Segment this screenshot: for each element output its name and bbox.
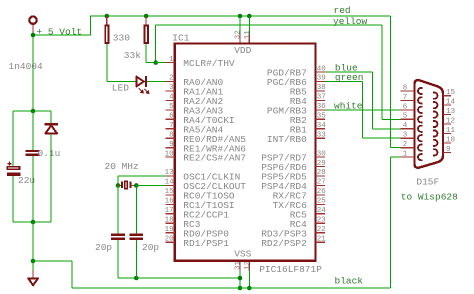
svg-text:28: 28	[317, 169, 326, 177]
connector pin 1	[400, 156, 414, 158]
svg-text:8: 8	[403, 84, 408, 92]
ground symbol	[28, 278, 38, 285]
wire pin12 VSS	[248, 261, 250, 271]
svg-text:29: 29	[317, 160, 326, 168]
wire left cap to vss rail	[117, 240, 119, 278]
svg-text:10: 10	[446, 136, 456, 144]
svg-text:yellow: yellow	[333, 16, 368, 27]
pin 3 RA1/AN1	[165, 90, 175, 92]
svg-text:PIC16LF871P: PIC16LF871P	[259, 264, 322, 275]
junction pin31 cap rail	[238, 276, 243, 281]
wire LED to pin2	[147, 81, 166, 83]
wire 330 to LED	[106, 44, 108, 82]
svg-text:15: 15	[446, 89, 456, 97]
svg-text:26: 26	[317, 188, 327, 196]
svg-text:+ 5 Volt: + 5 Volt	[37, 26, 83, 37]
svg-text:7: 7	[403, 94, 408, 102]
svg-text:23: 23	[317, 216, 327, 224]
svg-text:33: 33	[317, 131, 327, 139]
svg-text:D15F: D15F	[416, 176, 439, 187]
capacitor C0.1u	[26, 150, 40, 152]
pin 21 RD2/PSP2	[316, 241, 326, 243]
svg-text:IC1: IC1	[172, 32, 189, 43]
svg-text:0.1u: 0.1u	[38, 148, 61, 159]
wire 33k to MCLR node	[145, 44, 147, 63]
connector pin 8	[400, 90, 414, 92]
connector pin 14	[443, 104, 451, 106]
pin 33 INT/RB0	[316, 137, 326, 139]
svg-text:21: 21	[317, 235, 327, 243]
pin 29 PSP6/RD6	[316, 166, 326, 168]
junction VDD pin32	[238, 14, 243, 19]
wire pin13 to crystal left	[118, 175, 165, 177]
svg-text:green: green	[335, 72, 364, 83]
connector pin 7	[400, 99, 414, 101]
svg-text:20 MHz: 20 MHz	[105, 161, 139, 172]
wire crystal right to pin14	[136, 184, 165, 186]
connector pin 5	[400, 118, 414, 120]
svg-text:30: 30	[317, 150, 327, 158]
pin 2 RA0/AN0	[165, 81, 175, 83]
svg-text:32: 32	[235, 30, 243, 39]
wire gnd node to bottom rail	[33, 260, 72, 262]
junction gnd node	[31, 259, 36, 264]
pin 35 RB2	[316, 118, 326, 120]
power pin stub	[32, 25, 34, 36]
svg-text:4: 4	[403, 122, 408, 130]
svg-text:35: 35	[317, 113, 327, 121]
junction MCLR node	[153, 60, 158, 65]
pin 7 RA5/AN4	[165, 128, 175, 130]
pin 15 RC0/T1OSO	[165, 194, 175, 196]
wire crystal right cap	[135, 185, 137, 233]
pin 38 RB5	[316, 90, 326, 92]
svg-text:MCLR#/THV: MCLR#/THV	[183, 58, 235, 69]
svg-text:15: 15	[165, 188, 175, 196]
connector X1 D15F body	[415, 80, 444, 168]
svg-text:11: 11	[446, 127, 456, 135]
svg-text:6: 6	[403, 103, 408, 111]
junction network top	[31, 109, 36, 114]
svg-text:RE2/CS#/AN7: RE2/CS#/AN7	[183, 153, 246, 164]
pin 4 RA2/AN2	[165, 99, 175, 101]
svg-text:34: 34	[317, 122, 327, 130]
svg-text:2: 2	[403, 141, 408, 149]
connector pin 2	[400, 147, 414, 149]
svg-text:22: 22	[317, 226, 326, 234]
svg-text:RD1/PSP1: RD1/PSP1	[183, 238, 229, 249]
svg-text:9: 9	[169, 141, 174, 149]
pin 9 RE1/WR#/AN6	[165, 147, 175, 149]
svg-text:red: red	[334, 5, 351, 16]
wire pin11 VDD	[248, 16, 250, 34]
pin 16 RC1/T1OSI	[165, 203, 175, 205]
svg-text:5: 5	[169, 103, 174, 111]
wire 22u branch top	[12, 111, 14, 166]
pin 24 RC5	[316, 213, 326, 215]
junction crystal left	[116, 183, 121, 188]
svg-text:1: 1	[169, 56, 174, 64]
svg-text:4: 4	[169, 94, 174, 102]
capacitor C20p right	[129, 234, 143, 236]
wire green PGC to conn pin3	[325, 81, 363, 83]
pin 1 MCLR#/THV	[165, 62, 175, 64]
svg-text:12: 12	[244, 261, 252, 270]
svg-text:20p: 20p	[95, 242, 112, 253]
svg-text:1: 1	[403, 151, 408, 159]
pin 17 RC2/CCP1	[165, 213, 175, 215]
svg-text:33k: 33k	[124, 50, 141, 61]
svg-text:6: 6	[169, 113, 174, 121]
wire right cap down	[135, 240, 137, 278]
svg-text:9: 9	[446, 146, 451, 154]
pin 10 RE2/CS#/AN7	[165, 156, 175, 158]
svg-text:20p: 20p	[142, 242, 159, 253]
connector pin 6	[400, 109, 414, 111]
connector pin 15	[443, 95, 451, 97]
pin 39 PGC/RB6	[316, 81, 326, 83]
wire +5V top rail	[91, 15, 391, 17]
wire yellow MCLR to pin5	[155, 25, 157, 63]
svg-text:37: 37	[317, 94, 326, 102]
pin 34 RB1	[316, 128, 326, 130]
connector pin 10	[443, 142, 451, 144]
svg-text:3: 3	[403, 132, 408, 140]
svg-text:5: 5	[403, 113, 408, 121]
svg-text:39: 39	[317, 75, 326, 83]
wire gnd stub	[32, 261, 34, 270]
svg-text:25: 25	[317, 198, 327, 206]
pin 19 RD0/PSP0	[165, 232, 175, 234]
svg-text:18: 18	[165, 216, 174, 224]
svg-text:INT/RB0: INT/RB0	[267, 134, 307, 145]
pin 23 RC4	[316, 222, 326, 224]
junction network bottom	[31, 220, 36, 225]
resistor R33k	[145, 16, 147, 25]
LED D2	[136, 77, 144, 87]
pin 25 TX/RC6	[316, 203, 326, 205]
svg-text:10: 10	[165, 150, 175, 158]
wire bottom gnd rail	[72, 287, 391, 289]
svg-text:20: 20	[165, 235, 175, 243]
pin 18 RC3	[165, 222, 175, 224]
connector pin 4	[400, 128, 414, 130]
svg-text:13: 13	[446, 108, 456, 116]
capacitor C20p left	[111, 234, 125, 236]
svg-text:to Wisp628: to Wisp628	[401, 192, 458, 203]
svg-text:LED: LED	[112, 83, 129, 94]
svg-text:RD2/PSP2: RD2/PSP2	[261, 238, 307, 249]
svg-text:19: 19	[165, 226, 174, 234]
pin 14 OSC2/CLKOUT	[165, 184, 175, 186]
connector pin 12	[443, 123, 451, 125]
svg-text:13: 13	[165, 169, 175, 177]
junction +5 terminal	[31, 33, 36, 38]
wire MCLR node to pin1	[156, 62, 166, 64]
svg-text:16: 16	[165, 198, 175, 206]
connector pin 13	[443, 114, 451, 116]
wire diode branch bottom	[50, 134, 52, 222]
crystal Q1 20MHz	[118, 184, 122, 186]
wire pin32 VDD	[239, 16, 241, 34]
diode D1 1n4004	[44, 123, 58, 125]
wire pin31 VSS	[239, 261, 241, 271]
svg-text:38: 38	[317, 84, 326, 92]
svg-text:white: white	[334, 100, 363, 111]
svg-text:14: 14	[446, 99, 456, 107]
junction pin12 gnd rail	[247, 286, 252, 291]
connector pin 3	[400, 137, 414, 139]
wire left +5 down	[32, 35, 34, 111]
svg-text:VDD: VDD	[234, 45, 251, 56]
svg-text:330: 330	[113, 32, 130, 43]
wire down to gnd node	[32, 222, 34, 261]
svg-text:black: black	[335, 276, 364, 287]
svg-text:27: 27	[317, 179, 326, 187]
svg-text:17: 17	[165, 207, 174, 215]
svg-text:2: 2	[169, 75, 174, 83]
svg-text:VSS: VSS	[234, 248, 251, 259]
wire blue PGD to conn pin4	[325, 71, 373, 73]
svg-text:11: 11	[244, 30, 252, 40]
junction R33k top	[144, 14, 149, 19]
svg-text:24: 24	[317, 207, 327, 215]
wire crystal left cap	[117, 185, 119, 233]
wire network top bus	[13, 110, 51, 112]
pin 28 PSP5/RD5	[316, 175, 326, 177]
connector pin 9	[443, 151, 451, 153]
pin 40 PGD/RB7	[316, 71, 326, 73]
junction right cap bottom	[134, 276, 139, 281]
svg-text:12: 12	[446, 117, 455, 125]
wire diode branch top	[50, 111, 52, 124]
junction crystal right	[134, 183, 139, 188]
wire 0.1u branch bottom	[32, 156, 34, 222]
pin 22 RD3/PSP3	[316, 232, 326, 234]
svg-text:36: 36	[317, 103, 327, 111]
svg-text:3: 3	[169, 84, 174, 92]
op IC1 PIC16LF871P body	[175, 44, 316, 261]
pin 6 RA4/T0CKI	[165, 118, 175, 120]
resistor R330	[106, 16, 108, 25]
pin 36 PGM/RB3	[316, 109, 326, 111]
svg-text:14: 14	[165, 179, 175, 187]
pin 26 RX/RC7	[316, 194, 326, 196]
wire +5V rail left jog	[33, 34, 91, 36]
wire 22u branch bottom	[12, 176, 14, 222]
wire network bottom bus	[13, 221, 51, 223]
svg-text:7: 7	[169, 122, 174, 130]
pin 5 RA3/AN3	[165, 109, 175, 111]
junction VDD pin11	[247, 14, 252, 19]
svg-text:31: 31	[235, 260, 243, 270]
junction R330 top	[105, 14, 110, 19]
pin 8 RE0/RD#/AN5	[165, 137, 175, 139]
power terminal +5V circle	[29, 17, 36, 24]
connector pin 11	[443, 132, 451, 134]
pin 30 PSP7/RD7	[316, 156, 326, 158]
svg-text:40: 40	[317, 65, 327, 73]
pin 37 RB4	[316, 99, 326, 101]
wire red vertical to pin2	[390, 16, 392, 148]
capacitor C22u electrolytic	[7, 167, 19, 169]
pin 13 OSC1/CLKIN	[165, 175, 175, 177]
svg-text:8: 8	[169, 131, 174, 139]
pin 27 PSP4/RD4	[316, 184, 326, 186]
pin 20 RD1/PSP1	[165, 241, 175, 243]
wire white PGM to conn pin6	[325, 109, 401, 111]
junction pin31 gnd rail	[238, 286, 243, 291]
svg-text:1n4004: 1n4004	[9, 61, 44, 72]
wire 0.1u branch top	[32, 111, 34, 150]
